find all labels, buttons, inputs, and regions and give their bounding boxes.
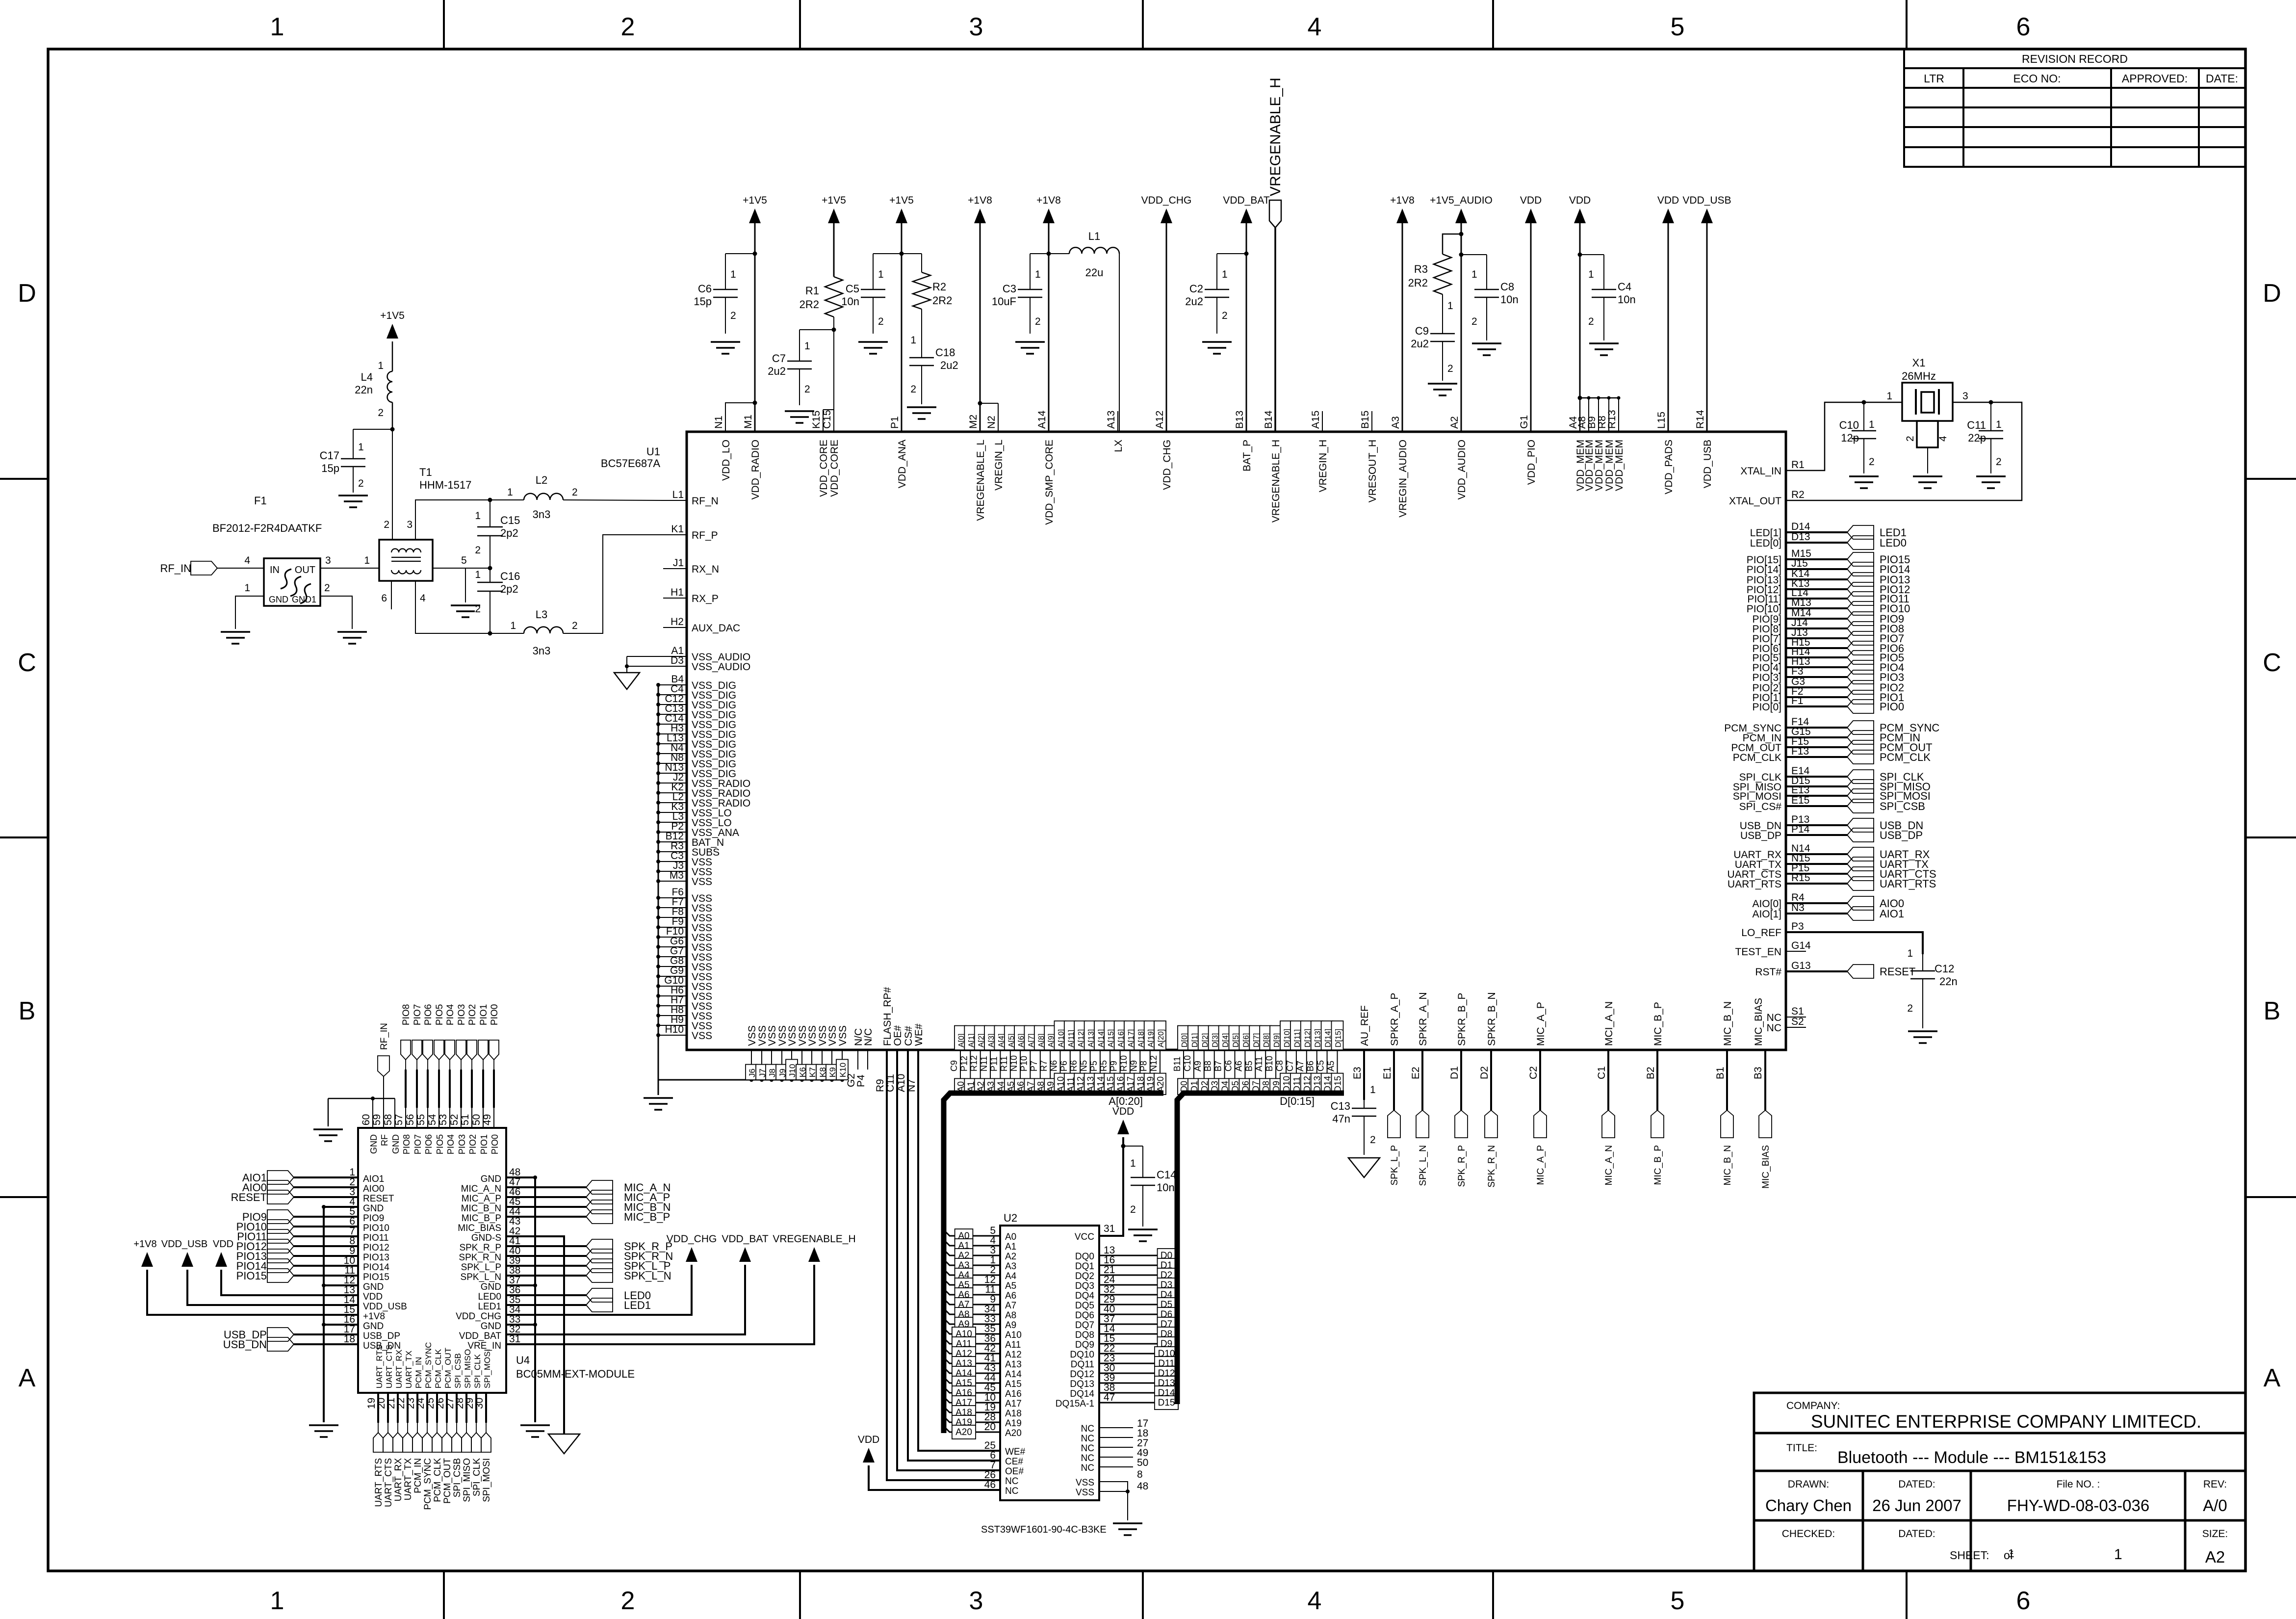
svg-text:1: 1 xyxy=(1222,269,1228,280)
svg-text:VDD_RADIO: VDD_RADIO xyxy=(750,440,761,500)
pin D6 xyxy=(1239,1050,1245,1092)
pin D11 xyxy=(1290,1050,1296,1092)
U2 pin DQ0 xyxy=(1099,1255,1177,1256)
svg-text:A14: A14 xyxy=(1036,410,1048,429)
svg-text:RX_N: RX_N xyxy=(692,564,719,575)
net tag PIO15 xyxy=(1847,552,1874,566)
ground F1 pin1 xyxy=(221,631,250,633)
net tag SPI_MOSI xyxy=(481,1433,491,1452)
pin A8 xyxy=(1034,1050,1040,1092)
power VDD VDD_PIO xyxy=(1525,209,1537,223)
svg-text:2R2: 2R2 xyxy=(1408,277,1428,289)
svg-text:DQ10: DQ10 xyxy=(1070,1350,1094,1360)
net tag PCM_IN xyxy=(413,1433,422,1452)
svg-text:A1: A1 xyxy=(1005,1242,1016,1252)
svg-text:1: 1 xyxy=(1886,391,1892,402)
svg-text:UART_CTS: UART_CTS xyxy=(385,1345,394,1388)
svg-text:CE#: CE# xyxy=(1005,1457,1023,1467)
power VDD_CHG to U4 pin34 xyxy=(686,1247,697,1262)
svg-text:C6: C6 xyxy=(698,283,712,295)
U4 pin 29 SPI_CLK xyxy=(475,1393,477,1423)
svg-text:GND: GND xyxy=(481,1174,501,1184)
svg-text:DATED:: DATED: xyxy=(1898,1528,1935,1540)
svg-text:PIO5: PIO5 xyxy=(435,1004,445,1025)
svg-text:1: 1 xyxy=(244,582,250,594)
svg-text:12p: 12p xyxy=(1841,432,1859,444)
svg-text:GND: GND xyxy=(481,1282,501,1292)
pin A20 xyxy=(1154,1050,1160,1092)
svg-text:VDD_AUDIO: VDD_AUDIO xyxy=(1456,440,1468,500)
svg-text:XTAL_IN: XTAL_IN xyxy=(1740,466,1781,477)
svg-text:C13: C13 xyxy=(1331,1100,1350,1112)
U2 pin DQ15 xyxy=(1099,1402,1177,1404)
svg-text:C15: C15 xyxy=(500,514,520,526)
pin D3 xyxy=(1209,1050,1214,1092)
net tag PCM_CLK xyxy=(432,1433,442,1452)
svg-text:DQ8: DQ8 xyxy=(1075,1330,1094,1340)
svg-text:SPI_CSB: SPI_CSB xyxy=(1880,800,1925,812)
capacitor C7 2u2 xyxy=(800,329,834,330)
net tag SPI_CLK xyxy=(471,1433,481,1452)
svg-text:MIC_B_P: MIC_B_P xyxy=(624,1211,670,1223)
svg-text:SPI_CLK: SPI_CLK xyxy=(473,1354,482,1388)
svg-text:Chary Chen: Chary Chen xyxy=(1765,1496,1852,1515)
svg-text:A16: A16 xyxy=(1005,1389,1022,1399)
svg-text:PCM_OUT: PCM_OUT xyxy=(443,1348,453,1388)
pin A0 xyxy=(955,1050,960,1092)
svg-text:LED0: LED0 xyxy=(1880,537,1907,549)
svg-text:AIO1: AIO1 xyxy=(1880,908,1904,920)
svg-text:+1V5: +1V5 xyxy=(743,195,767,206)
net tag USB_DP xyxy=(1847,828,1874,842)
capacitor C17 15p xyxy=(353,429,392,430)
wire F1 GND1 to ground xyxy=(320,596,352,629)
svg-text:B: B xyxy=(2264,997,2281,1025)
svg-text:6: 6 xyxy=(2016,1587,2031,1615)
svg-text:2: 2 xyxy=(358,478,364,489)
svg-text:1: 1 xyxy=(2008,1547,2014,1560)
pin D0 xyxy=(1178,1050,1184,1092)
svg-text:SPI_CSB: SPI_CSB xyxy=(453,1353,463,1388)
svg-text:DQ13: DQ13 xyxy=(1070,1379,1094,1389)
svg-text:PIO12: PIO12 xyxy=(363,1243,389,1253)
svg-text:F1: F1 xyxy=(254,495,267,507)
U4 left GND bus xyxy=(323,1207,325,1422)
net tag RESET xyxy=(1847,965,1874,978)
svg-text:A9: A9 xyxy=(1193,1061,1203,1071)
svg-text:SPK_L_P: SPK_L_P xyxy=(461,1262,501,1273)
svg-text:MIC_A_N: MIC_A_N xyxy=(461,1184,501,1194)
ground U4 top xyxy=(313,1128,343,1130)
svg-text:PIO2: PIO2 xyxy=(468,1134,478,1154)
svg-text:22n: 22n xyxy=(1939,975,1958,988)
power VDD VDD_MEM xyxy=(1574,209,1586,223)
svg-text:A12: A12 xyxy=(1154,411,1165,429)
svg-text:L15: L15 xyxy=(1656,412,1667,429)
svg-text:GND: GND xyxy=(363,1321,384,1332)
svg-text:3: 3 xyxy=(969,13,983,41)
wire X1 to ground xyxy=(1927,447,1928,473)
capacitor C2 2u2 xyxy=(1217,253,1246,254)
svg-text:SPK_R_P: SPK_R_P xyxy=(459,1243,501,1253)
wire OE# to U2 xyxy=(897,1050,1000,1470)
svg-text:1: 1 xyxy=(1370,1084,1376,1096)
svg-text:A20: A20 xyxy=(955,1427,972,1437)
U2 pin A13 xyxy=(944,1358,1000,1363)
svg-text:VREGIN_L: VREGIN_L xyxy=(993,440,1005,491)
svg-text:C7: C7 xyxy=(772,352,786,365)
svg-text:GND-S: GND-S xyxy=(471,1233,501,1243)
svg-text:P1: P1 xyxy=(889,416,901,429)
svg-text:A19: A19 xyxy=(1005,1418,1022,1429)
svg-text:GND: GND xyxy=(391,1134,401,1154)
power VDD VDD_PADS xyxy=(1662,209,1674,223)
svg-text:DQ15A-1: DQ15A-1 xyxy=(1056,1399,1094,1409)
pin A19 xyxy=(1144,1050,1150,1092)
svg-text:SPK_R_N: SPK_R_N xyxy=(1487,1145,1497,1188)
net tag UART_TX xyxy=(1847,857,1874,871)
U2 pin A10 xyxy=(944,1328,1000,1334)
wire VSS_AUDIO pins to earth xyxy=(627,656,663,657)
svg-text:R1: R1 xyxy=(1791,459,1805,470)
svg-text:15p: 15p xyxy=(321,462,339,474)
svg-text:A[20]: A[20] xyxy=(1157,1029,1165,1047)
svg-text:SPI_CSB: SPI_CSB xyxy=(452,1458,463,1497)
svg-text:PCM_CLK: PCM_CLK xyxy=(434,1349,443,1388)
svg-text:D15: D15 xyxy=(1158,1398,1175,1408)
pin A9 xyxy=(1044,1050,1050,1092)
svg-text:DATED:: DATED: xyxy=(1898,1479,1935,1490)
svg-text:PIO3: PIO3 xyxy=(457,1004,467,1025)
svg-text:+1V5: +1V5 xyxy=(889,195,914,206)
U4 pin 21 UART_RX xyxy=(397,1393,399,1423)
svg-text:A/0: A/0 xyxy=(2203,1496,2227,1515)
pin D7 xyxy=(1249,1050,1255,1092)
net tag UART_TX xyxy=(403,1433,413,1452)
net tag MIC_A_N xyxy=(1602,1110,1615,1138)
svg-text:3n3: 3n3 xyxy=(533,645,551,657)
svg-text:A20: A20 xyxy=(1156,1076,1165,1092)
svg-text:VREGENABLE_H: VREGENABLE_H xyxy=(773,1233,855,1245)
U4 USB tags xyxy=(294,1333,358,1335)
svg-text:3: 3 xyxy=(325,555,331,566)
svg-text:1: 1 xyxy=(1130,1158,1136,1169)
power +1V5 VDD_ANA xyxy=(896,209,907,223)
net tag UART_CTS xyxy=(383,1433,393,1452)
U2 pin DQ2 xyxy=(1099,1275,1177,1276)
svg-text:RESET: RESET xyxy=(231,1191,267,1203)
svg-text:2u2: 2u2 xyxy=(768,365,786,377)
svg-text:PIO10: PIO10 xyxy=(363,1223,389,1233)
svg-text:C8: C8 xyxy=(1500,281,1514,293)
U2 pin DQ6 xyxy=(1099,1314,1177,1315)
svg-text:AIO0: AIO0 xyxy=(363,1184,384,1194)
svg-text:A2: A2 xyxy=(2205,1548,2225,1566)
pin A1 xyxy=(964,1050,970,1092)
svg-text:File NO. :: File NO. : xyxy=(2057,1479,2100,1490)
svg-text:UART_RTS: UART_RTS xyxy=(1880,878,1936,890)
svg-text:DQ1: DQ1 xyxy=(1075,1261,1094,1272)
svg-text:DRAWN:: DRAWN: xyxy=(1788,1479,1829,1490)
pin A16 xyxy=(1114,1050,1120,1092)
svg-text:SPI_MISO: SPI_MISO xyxy=(462,1458,472,1502)
svg-text:2: 2 xyxy=(1222,310,1228,321)
power +1V5_AUDIO VDD_AUDIO xyxy=(1455,209,1467,223)
svg-text:C: C xyxy=(18,649,36,677)
balun T1 HHM-1517 xyxy=(379,540,433,581)
U2 pin A7 xyxy=(944,1299,1000,1305)
net tag PIO1 xyxy=(1847,690,1874,704)
IC U1 BC57E687A body xyxy=(687,432,1786,1050)
svg-text:R13: R13 xyxy=(1606,410,1618,429)
svg-text:RESET: RESET xyxy=(363,1194,394,1204)
svg-text:D: D xyxy=(2263,279,2281,308)
net tag UART_RX xyxy=(393,1433,403,1452)
U2 pin DQ4 xyxy=(1099,1294,1177,1296)
U4 left AIO tags xyxy=(294,1176,358,1178)
capacitor C12 22n xyxy=(1922,954,1923,971)
svg-text:2p2: 2p2 xyxy=(500,527,518,539)
U2 pin DQ1 xyxy=(1099,1265,1177,1266)
svg-text:MIC_A_P: MIC_A_P xyxy=(1535,1002,1547,1046)
svg-text:SPI_MOSI: SPI_MOSI xyxy=(483,1349,492,1388)
svg-text:FLASH_RP#: FLASH_RP# xyxy=(882,987,893,1046)
pin A2 xyxy=(975,1050,980,1092)
svg-text:C1: C1 xyxy=(1596,1066,1607,1079)
svg-text:SPI_MISO: SPI_MISO xyxy=(463,1349,472,1388)
svg-text:U2: U2 xyxy=(1004,1212,1017,1224)
svg-text:SPK_R_P: SPK_R_P xyxy=(1457,1145,1467,1187)
svg-text:VSS: VSS xyxy=(807,1025,818,1046)
net tag PIO13 xyxy=(1847,573,1874,586)
net tag PIO3 xyxy=(1847,670,1874,684)
svg-text:56: 56 xyxy=(405,1114,416,1125)
svg-text:N10: N10 xyxy=(1009,1055,1019,1071)
svg-text:R7: R7 xyxy=(1039,1060,1049,1071)
svg-text:SPK_R_N: SPK_R_N xyxy=(459,1253,501,1263)
svg-text:6: 6 xyxy=(2016,13,2031,41)
svg-text:PCM_SYNC: PCM_SYNC xyxy=(423,1458,433,1510)
svg-text:MIC_BIAS: MIC_BIAS xyxy=(1753,998,1764,1046)
net tag MIC_B_P xyxy=(1651,1110,1664,1138)
bus D[0:15] xyxy=(1177,1093,1344,1256)
svg-text:P12: P12 xyxy=(959,1056,969,1071)
net tag PIO5 xyxy=(1847,651,1874,664)
svg-text:PIO4: PIO4 xyxy=(445,1004,456,1025)
pin D14 xyxy=(1321,1050,1327,1092)
svg-text:22n: 22n xyxy=(355,384,373,396)
svg-text:A2: A2 xyxy=(1005,1252,1016,1262)
svg-text:PIO8: PIO8 xyxy=(402,1134,412,1154)
net tag AIO1 xyxy=(1847,907,1874,920)
svg-text:2R2: 2R2 xyxy=(932,294,952,307)
svg-text:SUNITEC ENTERPRISE COMPANY LIM: SUNITEC ENTERPRISE COMPANY LIMITECD. xyxy=(1811,1411,2201,1432)
svg-text:22p: 22p xyxy=(1968,432,1986,444)
pin D15 xyxy=(1332,1050,1338,1092)
svg-text:AUX_DAC: AUX_DAC xyxy=(692,623,740,634)
svg-text:LX: LX xyxy=(1113,440,1124,452)
svg-text:PIO14: PIO14 xyxy=(363,1262,389,1273)
svg-text:NC: NC xyxy=(1081,1434,1094,1444)
svg-text:WE#: WE# xyxy=(913,1023,925,1046)
svg-text:C2: C2 xyxy=(1528,1066,1539,1079)
svg-text:B2: B2 xyxy=(1645,1067,1656,1079)
svg-text:A12: A12 xyxy=(1005,1350,1022,1360)
U2 pin A1 xyxy=(944,1240,1000,1246)
svg-text:R12: R12 xyxy=(969,1055,979,1071)
U4 pin 19 UART_RTS xyxy=(377,1393,379,1423)
svg-text:RF_N: RF_N xyxy=(692,496,719,507)
capacitor C8 10n xyxy=(1461,254,1487,255)
svg-text:1: 1 xyxy=(1907,948,1913,959)
svg-text:A5: A5 xyxy=(1005,1281,1016,1291)
U2 pin A17 xyxy=(944,1397,1000,1403)
capacitor C10 12p xyxy=(1862,400,1866,405)
capacitor C5 10n xyxy=(873,253,902,254)
svg-text:A13: A13 xyxy=(1005,1359,1022,1370)
svg-text:A4: A4 xyxy=(1005,1271,1017,1281)
svg-text:B13: B13 xyxy=(1234,411,1245,429)
svg-text:1: 1 xyxy=(510,620,516,631)
U4 pin 27 SPI_CSB xyxy=(456,1393,458,1423)
svg-text:+1V5_AUDIO: +1V5_AUDIO xyxy=(1430,195,1493,206)
svg-text:S2: S2 xyxy=(1791,1016,1804,1027)
svg-text:C10: C10 xyxy=(1183,1055,1192,1071)
svg-text:2u2: 2u2 xyxy=(1185,295,1203,308)
svg-text:58: 58 xyxy=(383,1114,394,1125)
svg-text:NC: NC xyxy=(1005,1486,1018,1496)
svg-text:T1: T1 xyxy=(419,466,432,478)
U2 pin A18 xyxy=(944,1407,1000,1412)
wire U4 top GND to ground xyxy=(372,1098,373,1108)
U4 right MIC tags xyxy=(506,1186,586,1188)
svg-text:E13: E13 xyxy=(1791,784,1809,796)
crystal X1 26MHz xyxy=(1902,383,1953,421)
U4 pin 22 UART_TX xyxy=(407,1393,409,1423)
inductor L2 3n3 xyxy=(524,494,563,500)
svg-text:LED0: LED0 xyxy=(478,1292,501,1302)
svg-text:D[0:15]: D[0:15] xyxy=(1280,1095,1315,1107)
svg-text:NC: NC xyxy=(1767,1012,1781,1023)
U1 left pin stubs and labels xyxy=(663,500,687,501)
svg-text:GND: GND xyxy=(363,1203,384,1214)
resistor R1 2R2 xyxy=(825,277,843,317)
svg-text:MIC_B_P: MIC_B_P xyxy=(1653,1145,1663,1185)
U4 pin 28 SPI_MISO xyxy=(465,1393,467,1423)
svg-text:R15: R15 xyxy=(1791,872,1810,884)
net tag MIC_BIAS xyxy=(1759,1110,1772,1138)
pin D12 xyxy=(1301,1050,1307,1092)
svg-text:LED[0]: LED[0] xyxy=(1750,538,1781,549)
svg-text:PIO6: PIO6 xyxy=(424,1134,434,1154)
svg-text:L1: L1 xyxy=(672,489,684,500)
net tag UART_CTS xyxy=(1847,867,1874,881)
svg-text:N9: N9 xyxy=(1129,1060,1138,1071)
ground X1 xyxy=(1913,475,1942,477)
svg-text:A15: A15 xyxy=(1310,411,1321,429)
wire branch to ground xyxy=(465,568,466,602)
svg-text:N12: N12 xyxy=(1149,1055,1159,1071)
svg-text:MIC_B_N: MIC_B_N xyxy=(461,1203,501,1214)
svg-text:47n: 47n xyxy=(1332,1113,1350,1125)
svg-text:N/C: N/C xyxy=(863,1028,874,1046)
U4 top PIO tags xyxy=(405,1070,407,1108)
svg-text:VSS: VSS xyxy=(827,1025,838,1046)
svg-text:6: 6 xyxy=(381,593,387,604)
wire F1 GND to ground xyxy=(235,596,264,629)
svg-text:VDD: VDD xyxy=(1520,195,1542,206)
svg-text:FHY-WD-08-03-036: FHY-WD-08-03-036 xyxy=(2007,1496,2149,1515)
U4 top pins xyxy=(372,1108,373,1128)
pin D9 xyxy=(1270,1050,1276,1092)
svg-text:2: 2 xyxy=(804,384,810,395)
svg-text:N2: N2 xyxy=(986,416,997,429)
svg-text:D3: D3 xyxy=(671,655,684,666)
svg-text:SPI_CS#: SPI_CS# xyxy=(1739,801,1782,812)
svg-text:2: 2 xyxy=(621,13,635,41)
svg-text:F1: F1 xyxy=(1791,695,1804,706)
ground C14 xyxy=(1128,1228,1158,1230)
svg-text:PIO13: PIO13 xyxy=(363,1253,389,1263)
svg-text:5: 5 xyxy=(461,555,467,566)
svg-text:MCI_A_N: MCI_A_N xyxy=(1603,1001,1615,1046)
U4 right LED tags xyxy=(506,1294,586,1296)
svg-text:J15: J15 xyxy=(1791,558,1808,569)
svg-text:2: 2 xyxy=(1035,316,1041,327)
svg-text:A8: A8 xyxy=(1005,1310,1016,1321)
svg-text:P8: P8 xyxy=(1139,1061,1149,1071)
svg-text:L1: L1 xyxy=(1088,230,1100,242)
U2 pin A19 xyxy=(944,1416,1000,1422)
pin D2 xyxy=(1198,1050,1204,1092)
svg-text:A11: A11 xyxy=(1005,1340,1021,1350)
wire LO_REF to C12 xyxy=(1786,932,1923,954)
capacitor C18 2u2 xyxy=(921,309,922,358)
U4 pin 26 PCM_OUT xyxy=(446,1393,448,1423)
svg-text:4: 4 xyxy=(1937,436,1949,442)
net tag PIO12 xyxy=(1847,582,1874,596)
svg-text:NC: NC xyxy=(1767,1022,1781,1034)
svg-text:SPK_L_P: SPK_L_P xyxy=(1390,1145,1400,1185)
svg-text:PCM_IN: PCM_IN xyxy=(413,1458,423,1493)
U4 pin 25 PCM_CLK xyxy=(436,1393,438,1423)
U2 VCC pin 31 xyxy=(1099,1137,1123,1236)
svg-text:C4: C4 xyxy=(1618,281,1631,293)
svg-text:C17: C17 xyxy=(320,449,339,462)
ground U1 VSS bus xyxy=(644,1097,673,1099)
svg-text:C14: C14 xyxy=(1157,1169,1176,1181)
svg-text:1: 1 xyxy=(1869,419,1875,430)
svg-text:1: 1 xyxy=(1447,300,1453,312)
svg-text:4: 4 xyxy=(1308,13,1322,41)
pin A13 xyxy=(1084,1050,1090,1092)
net tag PCM_OUT xyxy=(1847,740,1874,754)
svg-text:N1: N1 xyxy=(713,416,724,429)
svg-text:VSS: VSS xyxy=(767,1025,778,1046)
svg-text:P7: P7 xyxy=(1029,1061,1039,1071)
svg-text:DQ14: DQ14 xyxy=(1070,1389,1094,1399)
svg-text:10n: 10n xyxy=(1618,293,1636,306)
svg-text:NC: NC xyxy=(1081,1424,1094,1434)
svg-text:4: 4 xyxy=(244,555,250,566)
svg-text:2: 2 xyxy=(324,582,330,594)
svg-text:A5: A5 xyxy=(1326,1061,1336,1071)
svg-text:BC57E687A: BC57E687A xyxy=(601,457,660,470)
svg-text:4: 4 xyxy=(1308,1587,1322,1615)
svg-text:2: 2 xyxy=(910,384,916,395)
svg-text:B8: B8 xyxy=(1203,1061,1213,1071)
svg-text:A6: A6 xyxy=(1005,1291,1016,1301)
